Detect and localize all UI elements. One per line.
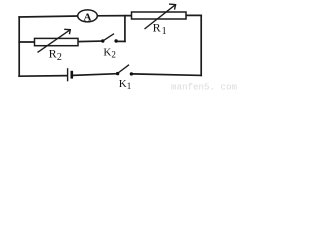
svg-text:A: A [84,11,92,23]
svg-text:1: 1 [127,81,132,91]
svg-text:K: K [103,46,111,58]
svg-text:R: R [49,47,57,61]
svg-text:K: K [119,78,127,90]
svg-text:1: 1 [162,26,167,37]
svg-text:R: R [153,20,161,34]
svg-text:2: 2 [111,50,116,60]
svg-text:2: 2 [57,52,62,63]
svg-text:manfen5. com: manfen5. com [171,81,237,92]
